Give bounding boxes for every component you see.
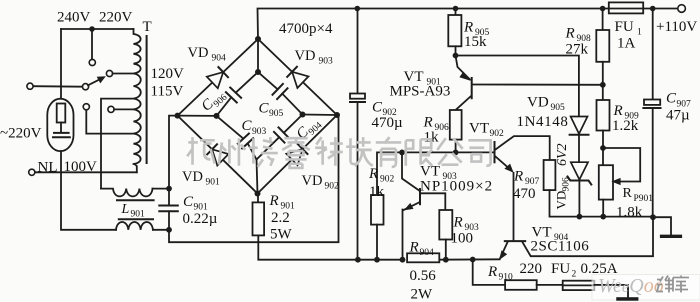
- node: VT904 emitter bus junction: [470, 257, 476, 263]
- wire: base bus y152: [377, 152, 495, 195]
- watermark char 10: [468, 140, 490, 165]
- wire: top bus after FU1 to output terminal: [643, 8, 678, 10]
- wire: inner diamond link right: [303, 114, 338, 117]
- wire: inner diamond link bottom: [257, 160, 258, 194]
- svg-text:100: 100: [451, 231, 474, 247]
- svg-text:P901: P901: [634, 194, 654, 204]
- transistor VT903 (NPN): [402, 152, 445, 259]
- wire: R909 bottom lead: [602, 131, 604, 166]
- svg-text:L: L: [121, 202, 130, 217]
- redraw wire over box: [594, 285, 628, 297]
- node: R906 bottom junction: [453, 150, 459, 156]
- svg-text:VD: VD: [527, 95, 549, 111]
- svg-text:902: 902: [325, 182, 340, 192]
- svg-text:220V: 220V: [99, 10, 133, 26]
- svg-text:C: C: [666, 91, 677, 107]
- wire: tap E to winding: [114, 108, 134, 110]
- wire: lead from 240V junction down to tap circle A: [91, 29, 93, 59]
- svg-text:0.22µ: 0.22µ: [183, 211, 218, 227]
- capacitor C903 (inner lower-left): [217, 116, 257, 160]
- node: P901 bottom junction: [600, 214, 606, 220]
- node: bridge left corner: [175, 113, 181, 119]
- resistor R908: [596, 30, 609, 62]
- svg-text:100V: 100V: [64, 159, 98, 175]
- wire: inner diamond link top: [257, 39, 259, 72]
- svg-text:0.56: 0.56: [410, 268, 437, 284]
- node: VT903 collector junction: [399, 150, 405, 156]
- svg-text:27k: 27k: [566, 42, 589, 58]
- svg-text:903: 903: [252, 127, 267, 137]
- svg-text:905: 905: [269, 109, 284, 119]
- inductor L901b (lower choke): [116, 222, 153, 230]
- label: VD906 (rotated): [554, 177, 572, 210]
- ground (right reference): [653, 217, 682, 236]
- node: VT901 base junction: [600, 82, 606, 88]
- svg-text:904: 904: [420, 248, 435, 258]
- node: inner diamond top: [255, 69, 261, 75]
- wire: R908 bottom lead: [602, 62, 604, 100]
- wire: R907 bottom lead to reference bus: [550, 190, 654, 217]
- wire: bridge AC feed left (up to left corner): [169, 116, 178, 189]
- NL internal lead: [60, 123, 62, 132]
- svg-text:2W: 2W: [411, 287, 434, 302]
- watermark char 3: [249, 137, 278, 167]
- svg-text:VD: VD: [295, 48, 316, 64]
- wire: winding bottom tail: [135, 164, 137, 172]
- transformer core line: [146, 36, 148, 163]
- svg-text:904: 904: [212, 54, 227, 64]
- wire: NL top column from 240V wire: [60, 29, 62, 99]
- svg-text:R: R: [409, 240, 419, 256]
- watermark char 4: [282, 138, 310, 168]
- diode VD902 (bottom-right arm): [286, 144, 307, 165]
- wire: P901 bottom lead: [602, 200, 604, 217]
- resistor R906: [450, 110, 462, 140]
- wire: switch arm wire from left input terminal to pivot: [33, 85, 82, 88]
- svg-text:R: R: [269, 193, 279, 209]
- svg-text:1N4148: 1N4148: [517, 114, 569, 130]
- wire: R901 bottom lead down to emitter bus: [258, 235, 402, 259]
- svg-text:470µ: 470µ: [372, 115, 404, 131]
- fuse FU2: [563, 281, 595, 290]
- svg-text:WeeQoo: WeeQoo: [598, 275, 664, 297]
- diode VD905 (1N4148): [570, 117, 589, 135]
- wire: C901 top lead: [168, 189, 170, 205]
- inductor L901a (upper choke): [101, 189, 153, 197]
- wire: L901b right lead: [153, 229, 169, 231]
- ballast lamp NL envelope: [47, 99, 73, 151]
- L901a core bar: [117, 199, 154, 201]
- label: C904 (rotated): [294, 114, 325, 144]
- resistor R902: [371, 195, 384, 225]
- wire: R905 top lead: [455, 9, 457, 16]
- svg-text:MPS-A93: MPS-A93: [390, 84, 451, 100]
- wire: R910-FU2 link: [537, 284, 563, 286]
- svg-text:+110V: +110V: [656, 19, 697, 35]
- label: C906 (rotated): [199, 86, 230, 116]
- svg-text:C: C: [242, 118, 253, 134]
- wire: lower input wire to winding bottom: [35, 171, 137, 173]
- watermark char ku: [673, 276, 689, 293]
- fuse FU1: [609, 2, 643, 13]
- transistor VT904 (2SC1106): [499, 218, 653, 261]
- svg-text:5W: 5W: [270, 227, 293, 243]
- ground (bottom output return): [616, 297, 638, 300]
- svg-text:VT: VT: [420, 164, 440, 180]
- node: R908 top junction: [600, 6, 606, 12]
- wire: C902 bottom lead down to emitter bus: [357, 102, 359, 260]
- svg-text:220: 220: [520, 261, 543, 277]
- wire: VD905-VD906 link: [578, 135, 580, 162]
- node: C907 top junction: [650, 6, 656, 12]
- svg-text:VD: VD: [182, 169, 203, 185]
- wire: R910 branch from emitter bus: [473, 260, 505, 285]
- wire: C907 top lead: [652, 9, 654, 100]
- node: bridge top corner (+): [255, 36, 261, 42]
- svg-text:C: C: [372, 100, 383, 116]
- wire: bridge outer diamond edges: [178, 39, 338, 194]
- node: junction dot L901b/C901: [166, 227, 172, 233]
- svg-text:R: R: [623, 186, 633, 201]
- svg-text:2: 2: [572, 270, 577, 280]
- node: junction dot L901a/C901/bridge feed: [166, 186, 172, 192]
- wire: NL bottom column down to L901b feed: [61, 151, 116, 230]
- wire: L901a leads: [153, 188, 170, 190]
- wire: reference rail to zener string: [456, 56, 579, 117]
- wire: R906 bottom lead: [455, 140, 457, 153]
- resistor R903: [439, 210, 452, 240]
- wire: R902 bottom lead: [376, 225, 378, 260]
- svg-text:902: 902: [490, 129, 505, 139]
- capacitor C902 (electrolytic): [350, 94, 365, 103]
- resistor R905: [448, 15, 461, 46]
- svg-text:910: 910: [499, 273, 514, 283]
- svg-text:47µ: 47µ: [666, 108, 690, 124]
- node: bridge bottom corner (-): [255, 191, 261, 197]
- diode VD904 (left-top arm): [207, 67, 228, 88]
- watermark char 8: [406, 139, 433, 166]
- switch selector arrow pointing to tap B: [88, 76, 106, 85]
- label: 6V2 (rotated): [555, 143, 570, 166]
- svg-text:VD: VD: [302, 173, 323, 189]
- node: R909/P901 wiper junction: [600, 145, 606, 151]
- wire: tap B to winding: [113, 73, 134, 75]
- svg-text:R: R: [368, 166, 378, 182]
- node: tap circle D (100V tap): [83, 104, 89, 110]
- svg-text:R: R: [513, 169, 523, 185]
- resistor R904 (series emitter resistor): [407, 253, 439, 262]
- wire: C902 top lead: [357, 9, 359, 94]
- svg-text:R: R: [453, 215, 463, 231]
- watermark char 5: [315, 137, 343, 166]
- node: C902 top junction: [355, 6, 361, 12]
- svg-text:1A: 1A: [617, 36, 636, 52]
- svg-text:2SC1106: 2SC1106: [531, 239, 590, 255]
- resistor R910: [505, 280, 537, 290]
- watermark char 7: [376, 137, 401, 167]
- diode VD903 (top-right arm): [287, 67, 308, 88]
- node: switch pivot circle C: [82, 84, 88, 90]
- svg-text:901: 901: [131, 210, 146, 220]
- watermark char 9: [437, 138, 462, 165]
- svg-text:C: C: [183, 194, 194, 210]
- resistor R907: [544, 160, 556, 190]
- svg-text:240V: 240V: [57, 10, 91, 26]
- watermark char 6: [346, 137, 373, 166]
- capacitor C901 plates: [159, 205, 178, 207]
- node: input terminal circle (lower ~220V): [29, 169, 35, 175]
- capacitor C906 (inner upper-left): [217, 72, 259, 116]
- svg-text:6V2: 6V2: [555, 143, 570, 166]
- wire: lower AC return bus to bridge right corner: [169, 115, 339, 242]
- svg-text:902: 902: [380, 175, 395, 185]
- svg-text:R: R: [565, 26, 575, 42]
- wire: tap D lead down then right to winding: [86, 110, 134, 134]
- wire: C901 bottom lead: [168, 211, 170, 230]
- watermark char wei: [657, 276, 673, 293]
- svg-text:15k: 15k: [464, 34, 487, 50]
- watermark char 1: [187, 137, 215, 165]
- capacitor C904 (inner lower-right): [257, 115, 303, 160]
- svg-text:1: 1: [637, 28, 642, 38]
- L901b core bar: [119, 218, 153, 220]
- resistor R909: [597, 100, 610, 131]
- svg-text:NL: NL: [38, 160, 58, 176]
- svg-text:2.2: 2.2: [271, 210, 290, 226]
- svg-text:4700p×4: 4700p×4: [279, 21, 333, 37]
- wire: +110V top bus from bridge top corner: [258, 9, 609, 40]
- svg-text:906: 906: [562, 177, 572, 192]
- wire: C907 bottom lead to ground node: [652, 108, 654, 218]
- capacitor C907 (electrolytic): [643, 100, 660, 109]
- node: tap circle E: [108, 106, 114, 112]
- P901 wiper arm: [603, 148, 640, 185]
- wire: R908 top lead: [602, 9, 604, 31]
- svg-text:C: C: [259, 101, 270, 117]
- wire: emitter bus right of R904: [439, 258, 499, 260]
- node: ground node junction: [650, 214, 656, 220]
- svg-text:NP1009×2: NP1009×2: [420, 179, 493, 195]
- svg-text:905: 905: [551, 103, 566, 113]
- svg-text:VD: VD: [554, 191, 569, 210]
- node: R905/VT901 emitter junction: [453, 53, 459, 59]
- zener diode VD906 (6V2): [568, 162, 592, 184]
- svg-text:~220V: ~220V: [0, 126, 42, 142]
- svg-text:FU: FU: [551, 261, 570, 277]
- svg-text:115V: 115V: [151, 84, 184, 100]
- node: tap circle A (240V tap): [89, 59, 95, 65]
- node: input terminal circle (upper ~220V): [27, 83, 33, 89]
- node: tap circle B (220V tap, selected): [106, 70, 112, 76]
- svg-text:R: R: [487, 264, 497, 280]
- svg-text:1k: 1k: [369, 184, 385, 200]
- wire: 115V tap wire left then down to L901a: [101, 99, 135, 189]
- potentiometer P901: [599, 165, 613, 199]
- svg-text:120V: 120V: [151, 66, 185, 82]
- svg-text:FU: FU: [615, 19, 634, 35]
- svg-text:1.8k: 1.8k: [616, 205, 643, 221]
- svg-text:VT: VT: [469, 121, 489, 137]
- svg-text:VD: VD: [188, 45, 209, 61]
- transformer T primary winding: [134, 29, 141, 164]
- svg-text:R: R: [613, 103, 623, 119]
- diode VD901 (bottom-left arm): [207, 144, 228, 165]
- NL filament resistor element: [57, 104, 66, 123]
- watermark char 2: [219, 138, 246, 166]
- node: R905 top junction: [453, 6, 459, 12]
- wire: 240V top wire from NL column to winding top: [61, 28, 134, 30]
- resistor R901: [253, 202, 265, 235]
- wire: inner diamond link left: [178, 115, 217, 117]
- svg-text:R: R: [423, 115, 433, 131]
- capacitor C905 (inner upper-right): [258, 72, 303, 115]
- wire: R903 bottom lead: [445, 240, 447, 260]
- wire: R901 top lead from bridge bottom: [257, 194, 259, 203]
- node: VT903 emitter junction: [400, 257, 406, 263]
- node: bridge right corner: [334, 112, 340, 118]
- NL electrode plates: [54, 132, 69, 134]
- svg-text:470: 470: [513, 186, 536, 202]
- node: R903 emitter-bus junction: [443, 257, 449, 263]
- node: C902 emitter-bus junction: [355, 257, 361, 263]
- transistor VT901 (PNP MPS-A93): [456, 56, 605, 110]
- wire: R905 bottom lead: [455, 46, 457, 55]
- svg-text:1.2k: 1.2k: [612, 118, 639, 134]
- svg-text:901: 901: [206, 178, 221, 188]
- node: inner diamond left: [214, 113, 220, 119]
- wire: FU2 to bottom ground: [594, 285, 628, 297]
- node: VD906 bottom junction: [577, 214, 583, 220]
- transistor VT902 (NPN driver): [495, 136, 550, 239]
- svg-text:903: 903: [319, 57, 334, 67]
- node: inner diamond right: [300, 112, 306, 118]
- node: +110V output terminal: [678, 5, 686, 13]
- node: R902 emitter-bus junction: [374, 257, 380, 263]
- wire: VD906 bottom lead: [578, 181, 580, 217]
- svg-text:T: T: [143, 19, 152, 35]
- node: junction dot on 240V wire: [89, 26, 95, 32]
